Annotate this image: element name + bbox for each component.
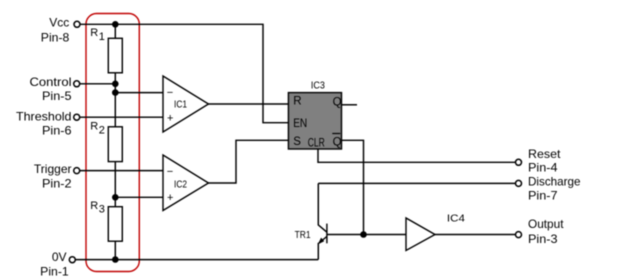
svg-text:CLR: CLR	[308, 138, 325, 150]
svg-text:+: +	[167, 113, 173, 125]
svg-text:Control: Control	[30, 75, 72, 89]
terminal Reset	[516, 159, 522, 165]
svg-text:Discharge: Discharge	[528, 175, 581, 189]
wire Threshold	[79, 116, 163, 118]
svg-text:Q: Q	[333, 96, 342, 108]
junction node top	[112, 21, 119, 28]
resistor R2	[90, 121, 122, 162]
junction node 1/3 Vcc	[112, 194, 119, 201]
svg-text:R: R	[293, 96, 301, 108]
wire Q stub	[342, 104, 358, 106]
wire TR1 collector	[318, 183, 327, 232]
svg-text:IC3: IC3	[311, 80, 325, 92]
node Output Pin-3 label	[528, 217, 564, 246]
svg-text:Reset: Reset	[528, 147, 561, 161]
wire chain R2-R3	[114, 162, 116, 207]
junction node 0V	[112, 256, 119, 263]
junction node TR1 base / IC4	[360, 231, 367, 238]
resistor R1	[90, 27, 122, 73]
wire node to IC4 input	[364, 234, 407, 236]
wire IC1 inverting input	[115, 92, 163, 94]
node Threshold Pin-6 label	[16, 110, 72, 138]
svg-text:Pin-4: Pin-4	[528, 161, 558, 175]
op-amp IC2 (comparator)	[163, 155, 209, 211]
red voltage-divider outline	[86, 14, 139, 272]
svg-text:0V: 0V	[52, 250, 67, 264]
node Vcc Pin-8 label	[41, 16, 70, 45]
svg-text:IC1: IC1	[174, 99, 187, 111]
terminal 0V	[69, 257, 75, 263]
terminal Discharge	[516, 180, 522, 186]
svg-text:Pin-8: Pin-8	[41, 30, 70, 44]
wire IC4 output	[435, 234, 516, 236]
node 0V Pin-1 label	[40, 250, 69, 279]
terminal Output	[516, 232, 522, 238]
svg-text:IC4: IC4	[447, 212, 465, 224]
svg-text:Pin-2: Pin-2	[42, 177, 72, 191]
svg-text:2: 2	[99, 124, 105, 136]
node Discharge Pin-7 label	[528, 175, 581, 203]
wire Control	[79, 83, 115, 85]
terminal Control	[74, 81, 80, 87]
svg-text:Pin-6: Pin-6	[42, 123, 72, 137]
terminal Trigger	[74, 168, 80, 174]
svg-text:−: −	[167, 166, 173, 178]
wire chain R1-R2	[114, 73, 116, 127]
buffer IC4	[406, 212, 465, 250]
wire 0V rail	[75, 259, 318, 261]
wire CLR to Reset	[318, 149, 516, 162]
svg-text:Pin-5: Pin-5	[42, 89, 72, 103]
svg-text:Pin-7: Pin-7	[528, 188, 558, 202]
wire Discharge	[318, 182, 515, 184]
op-amp IC1 (comparator)	[163, 76, 209, 132]
svg-text:Pin-3: Pin-3	[528, 232, 558, 246]
terminal Vcc	[74, 21, 80, 27]
svg-text:TR1: TR1	[295, 229, 311, 241]
resistor R3	[90, 200, 122, 241]
wire IC2 output to S	[208, 140, 288, 183]
svg-text:Vcc: Vcc	[49, 16, 69, 30]
svg-text:R: R	[90, 200, 98, 212]
svg-text:Trigger: Trigger	[34, 162, 72, 176]
wire TR1 base to node	[327, 234, 364, 236]
svg-text:3: 3	[99, 204, 105, 216]
terminal Threshold	[74, 114, 80, 120]
svg-text:1: 1	[99, 31, 105, 43]
wire chain R3-0V	[114, 241, 116, 259]
wire Qbar to node	[342, 140, 364, 234]
wire TR1 emitter to 0V	[317, 243, 319, 260]
transistor TR1	[295, 224, 327, 245]
svg-text:Threshold: Threshold	[16, 110, 72, 124]
wire Vcc rail	[80, 24, 289, 122]
wire IC2 non-inverting input	[115, 196, 163, 198]
node Reset Pin-4 label	[528, 147, 561, 175]
svg-text:Q: Q	[333, 136, 342, 148]
node Control Pin-5 label	[30, 75, 72, 103]
svg-text:+: +	[167, 192, 173, 204]
wire divider chain top	[114, 24, 116, 38]
svg-text:Output: Output	[528, 217, 564, 231]
svg-text:−: −	[167, 87, 173, 99]
svg-text:S: S	[293, 136, 301, 148]
junction node 2/3 Vcc	[112, 89, 119, 96]
wire IC1 output to R	[208, 103, 288, 105]
wire Trigger	[79, 170, 163, 172]
svg-text:Pin-1: Pin-1	[40, 265, 69, 279]
node Trigger Pin-2 label	[34, 162, 72, 191]
svg-text:R: R	[90, 121, 98, 133]
junction node control	[112, 81, 119, 88]
svg-text:EN: EN	[293, 118, 307, 130]
svg-text:IC2: IC2	[174, 178, 187, 190]
svg-text:R: R	[90, 27, 98, 39]
flip-flop IC3	[288, 80, 341, 150]
